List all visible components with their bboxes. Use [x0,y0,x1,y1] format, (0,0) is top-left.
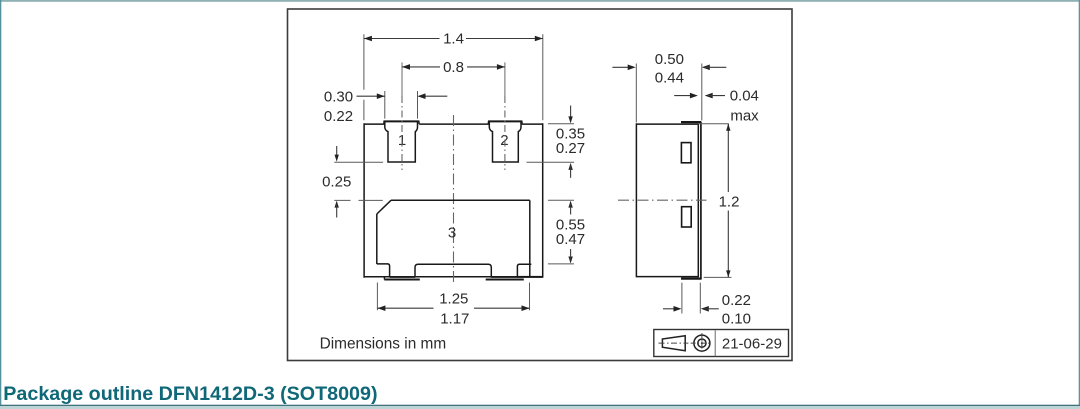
window 2 [682,207,692,227]
svg-text:max: max [730,108,759,125]
svg-text:0.22: 0.22 [324,108,353,125]
dim 0.55/0.47 upper arrowhead [568,201,572,208]
svg-text:0.50: 0.50 [655,51,684,68]
dim 1.4 right arrowhead [535,36,543,42]
dim 0.8 right arrowhead [497,64,505,70]
dim 1.2 bottom extension line [704,276,732,278]
dim 0.22/0.10 left leader [663,308,678,310]
dim 0.04 left leader [674,95,695,97]
terminal 1 [385,121,418,162]
svg-text:1.17: 1.17 [440,310,469,327]
dim 0.8 left arrowhead [402,64,410,70]
terminal 2 centerline [504,96,506,170]
terminal bottom reference line right [527,161,575,163]
dim 0.25 upper arrowhead [335,155,339,162]
dim 0.04 left arrowhead [690,93,698,99]
terminal bottom reference line left [334,161,383,163]
window 1 [681,143,691,163]
dim 0.25 lower arrowhead [335,201,339,208]
terminal 2 centerline extension [504,62,506,96]
terminal 1 mouth side stubs [384,121,419,124]
body left edge [363,123,365,277]
dim 0.35/0.27 lower arrow stem [570,166,572,178]
dim 1.2 top extension line [698,123,729,125]
dim 1.2 bottom arrowhead [726,270,730,277]
pad 3 left foot bar [384,279,420,281]
pad 3 bottom reference line right [548,263,574,265]
side centerline [618,199,707,201]
dim 1.25/1.17 left arrowhead [377,305,385,311]
dim 0.22/0.10 left arrowhead [674,306,682,312]
page bottom teal rule [0,405,1080,406]
dim 0.55/0.47 lower arrowhead [568,257,572,264]
dim 1.4 extension lines [364,34,543,120]
dim 1.4 dimension line [364,38,543,40]
dim 0.55/0.47 upper arrow stem [570,204,572,215]
bottom cap [681,277,702,279]
dim 0.22/0.10 extension lines [682,283,700,314]
pad 3 right foot bar [486,279,524,281]
terminal 2 mouth top line [488,120,522,122]
dim 0.22/0.10 right leader [704,308,719,310]
page right teal border [1079,0,1080,406]
svg-text:21-06-29: 21-06-29 [722,336,782,353]
dim 0.50/0.44 left leader [612,66,632,68]
terminal 2 [489,121,521,162]
pad 3 bottom right corner [517,264,531,277]
svg-text:0.27: 0.27 [556,140,585,157]
dim 1.2 dimension line [727,124,729,278]
pad 3 right edge [529,200,531,277]
svg-text:0.8: 0.8 [443,59,464,76]
dim 0.35/0.27 lower arrowhead [568,163,572,170]
svg-text:1.4: 1.4 [443,30,464,47]
pad 3 raised middle [415,264,491,277]
dim 1.25/1.17 right arrowhead [522,305,530,311]
body top reference line right [548,123,574,125]
dim 0.30/0.22 extension stubs [385,91,418,119]
pad 3 left edge [376,214,378,264]
dim 1.2 top arrowhead [726,124,730,131]
dim 0.25 lower arrow stem [336,204,338,218]
circle crosshair [691,342,712,344]
dim 0.04 right arrowhead [705,93,713,99]
page left teal border [0,0,1,406]
pad 3 right dark block [517,276,543,278]
dim 0.50/0.44 right leader [705,66,727,68]
dim 0.30/0.22 right arrowhead [418,93,426,99]
pad 3 left body-step [383,277,385,280]
svg-text:Dimensions in mm: Dimensions in mm [320,336,447,353]
svg-text:3: 3 [448,224,456,241]
dim 0.50/0.44 extension lines [636,64,702,123]
dim 0.55/0.47 lower arrow stem [570,249,572,260]
pad 3 top reference line left [334,199,382,201]
pad 3 bottom right segment [491,276,517,278]
terminal outer face [700,122,702,279]
pad 3 top edge [391,199,530,201]
projection circles [694,335,710,351]
svg-text:0.47: 0.47 [556,231,585,248]
svg-text:Package outline DFN1412D-3 (SO: Package outline DFN1412D-3 (SOT8009) [3,383,377,405]
body outline top edge segments [364,123,543,125]
svg-text:1.2: 1.2 [719,193,740,210]
dim 0.30/0.22 left arrowhead [377,93,385,99]
svg-text:0.30: 0.30 [324,88,353,105]
svg-text:0.44: 0.44 [655,70,684,87]
dim 0.50/0.44 left arrowhead [628,65,636,71]
body bottom edge [364,276,543,278]
pad 3 bottom-left step [377,264,390,277]
projection frustum [662,336,685,351]
svg-text:0.25: 0.25 [322,173,351,190]
page bottom light band [0,406,1080,409]
body rect [636,123,698,277]
frustum axis [659,342,689,344]
svg-text:0.10: 0.10 [722,311,751,328]
dim 0.50/0.44 right arrowhead [702,65,710,71]
svg-text:0.22: 0.22 [722,292,751,309]
svg-text:1.25: 1.25 [439,290,468,307]
terminal 1 mouth top line [384,120,420,122]
dim 0.8 dimension line [402,66,505,68]
dim 0.25 upper arrow stem [336,146,338,159]
pad 3 chamfer [377,200,391,214]
date box divider [714,330,716,356]
terminal 1 centerline extension [401,62,403,96]
terminal 2 mouth side stubs [488,121,522,124]
pad 3 top reference line right [548,199,574,201]
terminal 1 centerline [401,96,403,170]
body right edge [542,123,544,277]
svg-text:0.04: 0.04 [730,88,759,105]
drawing frame [288,9,793,361]
dim 1.25/1.17 extension lines [377,283,529,311]
dim 0.30/0.22 left leader [357,95,385,97]
page top teal border [0,0,1080,2]
date box outer [654,330,789,357]
dim 0.04 right leader [708,95,725,97]
dim 0.35/0.27 upper arrowhead [568,116,572,123]
package centerline [453,115,455,284]
dim 0.35/0.27 upper arrow stem [570,106,572,121]
dim 1.4 left arrowhead [364,36,372,42]
dim 0.30/0.22 right leader [419,95,448,97]
pad 3 bottom left segment [390,276,415,278]
top cap [681,121,701,123]
dim 1.25/1.17 dimension line [377,307,529,309]
dim 0.22/0.10 right arrowhead [701,306,709,312]
